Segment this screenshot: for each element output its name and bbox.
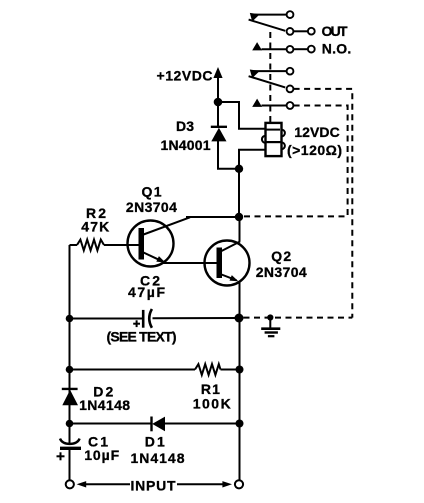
node: left rail R1 junction dot (66, 366, 74, 374)
wire: set1 NO lead (262, 48, 287, 50)
svg-text:12VDC: 12VDC (294, 124, 340, 140)
wire: R1 rail (70, 369, 196, 371)
wire: INPUT line with arrows (77, 481, 232, 487)
relay contact set 2: NC terminal circle (287, 68, 294, 75)
svg-text:2N3704: 2N3704 (126, 199, 177, 215)
diode D1 (152, 417, 166, 432)
node: left rail D1 junction dot (66, 420, 74, 428)
wire: coil bottom to node (239, 150, 266, 217)
capacitor C1 (57, 439, 82, 461)
relay contact set 1: common terminal circle (287, 28, 294, 35)
wire: D3 anode to coil-bottom node (218, 141, 239, 169)
wire: set1 NO to N.O. terminal (293, 48, 308, 50)
relay contact set 1: OUT terminal circle (308, 28, 315, 35)
ground symbol (261, 314, 280, 336)
wire: right rail from emitter node down to input terminal (239, 318, 241, 480)
wire: C2 rail right segment (153, 317, 240, 319)
wire: +12V node to coil top (218, 102, 266, 129)
node: +12V junction dot (214, 98, 223, 107)
wire: left rail from R2 down to input terminal (69, 245, 71, 480)
svg-text:D1: D1 (145, 434, 165, 450)
wire: C2 rail left segment (70, 318, 144, 320)
transistor Q1 (128, 217, 191, 266)
svg-text:1N4001: 1N4001 (161, 137, 211, 153)
node: coil bottom / D3 anode junction dot (235, 165, 243, 173)
node: Q2 emitter junction dot (235, 314, 244, 323)
capacitor C2 (133, 309, 152, 328)
wire: D1 rail right segment (165, 423, 240, 425)
resistor R1 (195, 364, 240, 375)
svg-text:10µF: 10µF (84, 447, 119, 463)
diode D2 (62, 389, 78, 405)
transistor Q2 (205, 241, 250, 286)
wire: set2 NO lead (262, 105, 287, 107)
svg-text:100K: 100K (193, 395, 231, 411)
dashed mechanical linkage from armature to coil (269, 32, 271, 122)
node: collector junction dot (235, 213, 243, 221)
relay contact set 1: NO contact circle (287, 46, 294, 53)
wire: Q1 emitter to Q2 base (164, 262, 217, 264)
relay contact set 1: pole wire (251, 14, 287, 16)
svg-text:(SEE TEXT): (SEE TEXT) (107, 329, 177, 345)
dashed wire: set2 NO down to collector node rail (244, 106, 348, 217)
svg-text:Q2: Q2 (271, 248, 291, 264)
resistor R2 (70, 240, 139, 251)
svg-text:Q1: Q1 (142, 184, 162, 200)
relay contact set 1: armature triangle (250, 13, 260, 22)
wire: set1 common to OUT terminal (293, 30, 308, 32)
svg-text:N.O.: N.O. (322, 41, 352, 57)
relay contact set 2: NO contact circle (287, 102, 294, 109)
relay contact set 1: movable arm (249, 20, 286, 31)
relay contact set 1: NC terminal circle (287, 11, 294, 18)
wire: Q2 collector up to node (239, 217, 241, 242)
relay contact set 2: movable arm (249, 76, 286, 87)
relay contact set 1: N.O. terminal circle (308, 46, 315, 53)
+12VDC supply arrow (213, 67, 222, 102)
svg-text:(>120Ω): (>120Ω) (287, 142, 342, 158)
wire: Q2 emitter down to ground rail node (239, 281, 241, 318)
relay contact set 2: pole wire (251, 70, 287, 72)
dashed wire: ground rail from emitter node to right rail (244, 317, 353, 319)
node: left rail / C2 junction dot (66, 315, 74, 323)
svg-text:2N3704: 2N3704 (256, 264, 307, 280)
svg-text:OUT: OUT (322, 23, 348, 39)
diode D3 cathode lead (217, 102, 219, 127)
svg-text:1N4148: 1N4148 (131, 450, 185, 466)
svg-text:INPUT: INPUT (131, 478, 176, 494)
input terminal left circle (66, 480, 74, 488)
relay contact set 2: NO armature triangle (252, 99, 262, 107)
svg-text:1N4148: 1N4148 (79, 397, 130, 413)
input terminal right circle (235, 480, 243, 488)
svg-text:D3: D3 (176, 118, 194, 134)
node: right rail R1 junction dot (236, 366, 244, 374)
node: right rail D1 junction dot (236, 420, 244, 428)
relay contact set 2: common terminal circle (287, 86, 294, 93)
relay contact set 1: NO armature triangle (252, 42, 262, 50)
svg-text:+12VDC: +12VDC (157, 68, 213, 84)
wire: collector rail (Q1 collector to node) (186, 216, 240, 218)
diode D3 (211, 127, 227, 142)
svg-text:47K: 47K (81, 219, 109, 235)
wire: D1 rail left segment (70, 423, 152, 425)
relay contact set 2: armature triangle (250, 70, 260, 79)
svg-text:47µF: 47µF (128, 284, 165, 300)
dashed wire: set2 common to right rail and down to ground rail (294, 89, 353, 318)
relay coil K1 (262, 123, 285, 156)
